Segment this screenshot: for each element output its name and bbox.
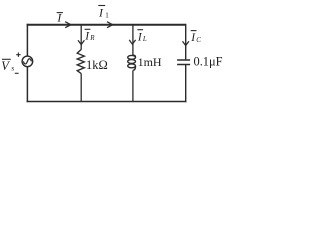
label: phasor current IR-bar	[84, 29, 95, 42]
svg-text:L: L	[142, 35, 147, 43]
label: phasor current IL-bar	[137, 30, 147, 44]
wire: inductor branch lower segment	[132, 70, 134, 101]
wire: left edge lower segment	[26, 67, 28, 103]
label: minus polarity of Vs	[15, 72, 19, 74]
arrowhead: current IC (points down)	[183, 41, 189, 45]
label: phasor current I-bar	[56, 11, 63, 25]
wire: bottom bus	[27, 101, 187, 103]
inductor L coil body	[128, 55, 136, 70]
svg-text:I: I	[98, 5, 104, 19]
AC source Vs (circle with sine)	[22, 56, 33, 67]
arrowhead: current I (points right)	[65, 22, 71, 28]
label: phasor current IC-bar	[190, 31, 201, 44]
svg-text:R: R	[89, 34, 95, 42]
svg-text:1: 1	[105, 12, 109, 20]
label: phasor current I1-bar	[98, 5, 109, 19]
svg-text:s: s	[11, 64, 14, 73]
label: plus polarity of Vs	[16, 53, 20, 57]
arrowhead: current I1 (points right)	[107, 22, 113, 28]
label: phasor voltage Vs-bar	[1, 59, 14, 73]
svg-text:V: V	[1, 59, 10, 73]
svg-text:1kΩ: 1kΩ	[86, 58, 108, 72]
arrowhead: current IL (points down)	[129, 40, 135, 44]
arrowhead: current IR (points down)	[78, 40, 84, 44]
wire: resistor branch lower segment	[80, 74, 82, 102]
capacitor C bottom plate	[177, 64, 190, 66]
wire: right edge lower segment	[185, 65, 187, 102]
svg-text:0.1μF: 0.1μF	[194, 55, 223, 69]
capacitor C top plate	[177, 59, 190, 61]
wire: right edge upper segment (IC arrow shaft)	[185, 24, 187, 60]
svg-text:C: C	[196, 36, 201, 44]
wire: top bus	[27, 24, 186, 26]
resistor R zigzag body	[77, 49, 84, 73]
svg-text:1mH: 1mH	[138, 55, 162, 69]
wire: left edge upper segment	[26, 24, 28, 56]
wire: resistor branch upper segment (IR arrow shaft)	[80, 25, 82, 50]
wire: inductor branch upper segment (IL arrow shaft)	[132, 25, 134, 56]
